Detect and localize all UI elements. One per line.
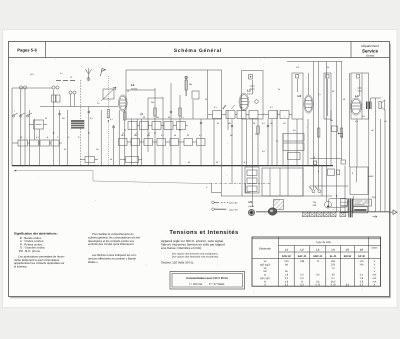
coil L-ant box (103, 89, 114, 99)
svg-text:25k: 25k (156, 116, 159, 119)
svg-text:20k: 20k (189, 83, 192, 86)
svg-text:Service: Service (362, 49, 379, 54)
socket pin p1 (113, 126, 115, 128)
output choke box (350, 167, 368, 195)
mains filter box upper (341, 199, 349, 206)
svg-text:50: 50 (313, 156, 315, 159)
svg-text:1M: 1M (283, 122, 286, 125)
svg-text:0,1: 0,1 (60, 72, 63, 75)
svg-text:Ces abréviations permettent de: Ces abréviations permettent de recon- (18, 254, 65, 258)
switch arrows k2 (232, 105, 235, 109)
svg-text:25: 25 (187, 134, 189, 137)
wire v17 (131, 119, 133, 166)
wire v25 (185, 76, 187, 96)
transformer lower box (353, 207, 368, 213)
coil form small a (52, 95, 56, 102)
AVC line (221, 195, 332, 197)
table outer border (252, 237, 381, 286)
tube V2 grid bars (241, 99, 248, 105)
wire v6 (38, 129, 40, 166)
wire v7 (53, 90, 55, 166)
resistor R20 (328, 169, 335, 176)
wire v1 (11, 88, 13, 166)
tube V5 highlight (270, 210, 273, 212)
wire v20 (147, 98, 149, 152)
svg-text:EM34: EM34 (249, 205, 255, 208)
switch arrows k1 (223, 105, 227, 109)
resistor row2 b (131, 139, 140, 146)
wave switch S1 (13, 113, 32, 116)
switch arrow marks mid (121, 132, 150, 136)
switch contact c1 (12, 115, 14, 117)
resistor R5 (51, 140, 59, 146)
coil arrow (101, 87, 116, 101)
svg-text:Pages 5-6: Pages 5-6 (17, 48, 37, 53)
heater hook h1 (212, 183, 222, 192)
svg-text:50: 50 (205, 98, 207, 101)
junction dot j2 (124, 129, 125, 130)
wire v46 (321, 166, 323, 196)
wire v3 (24, 90, 26, 166)
junction dot j7 (53, 132, 54, 133)
trimmer CA2 (23, 86, 26, 89)
wire v55 (361, 73, 363, 119)
svg-text:PH : B.O. phono.: PH : B.O. phono. (19, 249, 41, 253)
svg-text:Signification des abréviations: Signification des abréviations : (14, 232, 58, 236)
svg-text:50: 50 (20, 136, 22, 139)
svg-text:EL 41: EL 41 (330, 255, 337, 258)
header divider right (350, 42, 352, 58)
svg-text:développés et les contacts: développés et les contacts portés aux (88, 239, 135, 243)
mains selector contact2 (318, 190, 321, 193)
svg-text:2M: 2M (230, 134, 233, 137)
svg-text:0,1: 0,1 (244, 161, 247, 164)
speaker HP cone (381, 100, 385, 111)
legend item2 circle (212, 208, 215, 211)
svg-text:L5: L5 (249, 200, 253, 204)
wire v37 (271, 119, 273, 166)
svg-text:Unités: Unités (371, 247, 378, 250)
secteur plate dashes (355, 201, 370, 205)
svg-text:EAF 41: EAF 41 (298, 255, 307, 258)
dial lamp crosses (303, 212, 346, 216)
socket pin p2 (141, 113, 143, 115)
wire v15 (118, 110, 120, 166)
IF can L4 (351, 73, 369, 119)
wire v56 (368, 109, 370, 212)
capacitor C11 (314, 161, 317, 165)
svg-text:L3: L3 (298, 94, 302, 98)
output transformer T2 (367, 102, 372, 110)
svg-text:étalée ».: étalée ». (88, 260, 99, 264)
svg-text:50: 50 (135, 134, 137, 137)
tube V7 grids (306, 101, 312, 108)
wire v19 (141, 119, 143, 166)
wire v47 (326, 62, 328, 202)
wire v51 (344, 166, 346, 212)
mains selector contact1 (312, 190, 315, 193)
L4 can internal marks (358, 79, 363, 96)
wire v32 (241, 119, 243, 196)
junction dot j1 (108, 120, 109, 121)
tube V7 stem (308, 73, 310, 95)
svg-text:schéma général, les commutateu: schéma général, les commutateurs ont été (88, 235, 140, 239)
fuse dot (327, 206, 329, 208)
heater line arrowhead (14, 170, 17, 172)
top HT bus (287, 61, 342, 63)
svg-text:0,1: 0,1 (181, 116, 184, 119)
antenna input wire (12, 87, 52, 89)
wire v39 (282, 133, 284, 166)
resistor row2 c (144, 139, 153, 146)
wire v49 (336, 62, 338, 212)
tube V3 outer envelope (351, 98, 362, 115)
wire v9 (66, 110, 68, 166)
L3 trimmer square (249, 75, 253, 80)
dial lamp box6 (340, 212, 346, 216)
legend item1 line (214, 201, 228, 203)
osc coupling box (192, 91, 199, 99)
legend item1 circle (212, 201, 215, 204)
header band rule (9, 57, 390, 59)
svg-text:0,1: 0,1 (161, 134, 164, 137)
svg-text:Type du tube: Type du tube (316, 241, 332, 244)
speaker feed wire (371, 98, 381, 102)
resistor R8 (237, 111, 246, 119)
coil pack stripes (71, 122, 84, 126)
svg-text:L2: L2 (127, 90, 129, 93)
wire v57 (375, 98, 377, 212)
svg-text:nexions effectuées en position: nexions effectuées en position « Bande (88, 256, 136, 260)
det resistor d1 (247, 170, 257, 176)
wire v12 (100, 110, 102, 166)
resistor R11 (280, 111, 289, 119)
scan specks (132, 81, 135, 84)
junction dot j11 (338, 133, 339, 134)
svg-text:2M: 2M (62, 117, 65, 120)
table header rule2 (279, 251, 369, 253)
wire v58 (380, 119, 382, 212)
trimmer CA1 (19, 86, 22, 89)
col divider 2 (293, 246, 295, 287)
svg-text:50: 50 (168, 116, 170, 119)
connector leads padding row (137, 125, 188, 127)
svg-text:2x300: 2x300 (368, 175, 373, 178)
wire h-seg (310, 158, 341, 160)
svg-text:liaison PO: liaison PO (229, 208, 238, 211)
svg-text:naître facilement à quel c: naître facilement à quel commutateur (14, 258, 59, 262)
consumption box outer (170, 272, 245, 290)
svg-text:L3: L3 (247, 89, 251, 93)
trimmer CA6 (73, 91, 76, 94)
svg-text:EAF42: EAF42 (247, 92, 253, 95)
svg-text:25: 25 (327, 66, 329, 69)
svg-text:50: 50 (143, 116, 145, 119)
svg-text:0,1: 0,1 (262, 122, 265, 125)
svg-text:Département: Département (361, 44, 379, 48)
L3 trimmer dot (250, 76, 251, 77)
svg-text:2k: 2k (278, 88, 280, 91)
svg-text:à la masse; intensités en mA).: à la masse; intensités en mA). (161, 246, 202, 250)
svg-text:TM: TM (362, 115, 365, 118)
svg-text:I = 350 mA. P = 37 Watt: I = 350 mA. P = 37 Watts. (189, 283, 225, 286)
svg-text:25: 25 (45, 117, 47, 120)
page frame (9, 42, 390, 297)
wire v26 (192, 100, 194, 119)
connector leads R1 (29, 124, 47, 126)
svg-text:700: 700 (359, 263, 364, 266)
svg-text:8: 8 (318, 170, 319, 173)
ground bus (12, 165, 333, 167)
resistor row2 g (197, 139, 206, 146)
resistor R24 vertical (340, 128, 342, 137)
dial lamp box2 (310, 212, 316, 216)
trimmer CA5 (69, 91, 72, 94)
frame shadow bottom (10, 297, 391, 299)
svg-text:Central: Central (366, 54, 375, 57)
trimmer CA3 (52, 86, 55, 89)
trimmer stems (21, 89, 75, 106)
wire v2 (20, 90, 22, 166)
can top terminal t4 (357, 75, 360, 79)
can top terminal t1 (296, 75, 299, 79)
col divider 6 (353, 246, 355, 287)
rectifier tube V6 circle (248, 209, 254, 215)
svg-text:appartiennent les contacts rep: appartiennent les contacts repérables su… (14, 261, 65, 265)
wire v41 (296, 119, 298, 166)
svg-text:1M: 1M (96, 148, 99, 151)
socket pin p6 (267, 125, 269, 127)
heater hook h2 (246, 183, 251, 192)
transformer lower bar (354, 209, 366, 211)
svg-text:25k: 25k (151, 101, 154, 104)
wire v14 (113, 125, 115, 166)
svg-text:endroits des circuits qu'ils i: endroits des circuits qu'ils intéressent… (88, 242, 134, 246)
svg-text:2M: 2M (240, 106, 243, 109)
padding caps row1c (152, 122, 161, 130)
svg-text:Secteur 110 Volts 50 Hz.: Secteur 110 Volts 50 Hz. (161, 261, 194, 265)
svg-text:25: 25 (64, 148, 66, 151)
wire v54 (356, 119, 358, 167)
svg-text:198: 198 (300, 260, 305, 263)
wire v27 (200, 119, 202, 166)
dial lamp box3 (317, 212, 323, 216)
coil form small b (56, 95, 60, 102)
svg-text:0,1: 0,1 (36, 136, 39, 139)
tube V1 ECH42 (119, 96, 126, 110)
wire v34 (252, 119, 254, 207)
AF box internal wires (270, 168, 280, 196)
wire v42 (302, 119, 304, 196)
junction dot j5 (221, 165, 222, 166)
tube V2 outer envelope (239, 93, 249, 110)
wire h-seg2 (310, 185, 348, 187)
AVC resistor stack2 (283, 143, 304, 151)
wire v29 (221, 119, 223, 196)
fuse circle (325, 201, 332, 208)
col divider units (367, 237, 369, 286)
mains filter divider (341, 201, 349, 203)
IF can second (292, 73, 303, 119)
svg-text:2k: 2k (217, 122, 219, 125)
wire v24 (179, 95, 181, 166)
resistor R21 (337, 170, 340, 175)
wire v40 (287, 119, 289, 196)
junction dot j8 (276, 140, 277, 141)
speaker HP frame (379, 102, 381, 109)
svg-text:Pour faciliter la compréhen: Pour faciliter la compréhension du (92, 232, 134, 236)
wire v53 (352, 196, 354, 212)
wire v50 (340, 62, 342, 161)
wire v28 (213, 119, 215, 166)
svg-text:0,1: 0,1 (270, 106, 273, 109)
box divider (207, 70, 209, 119)
svg-text:0,1: 0,1 (110, 118, 113, 121)
connector leads row left A (12, 142, 62, 144)
wire v5 (34, 119, 36, 140)
svg-text:1M: 1M (384, 120, 387, 123)
magic eye coil hatched (274, 200, 284, 210)
col divider electrode (278, 237, 280, 286)
wire v45 (318, 62, 320, 190)
can2 internal line (297, 79, 299, 92)
wire v38 (276, 110, 278, 166)
wire v59 (384, 110, 386, 212)
padding caps row1b (140, 122, 149, 130)
resistor row2 d (157, 139, 166, 146)
tube V3 grid bars (352, 103, 360, 109)
resistor R1 (34, 120, 44, 129)
svg-text:GZ 40: GZ 40 (358, 255, 366, 258)
wire v35 (257, 119, 259, 166)
wire v8 (59, 110, 61, 166)
svg-text:0,75: 0,75 (315, 284, 320, 287)
resistor row2 f (184, 139, 193, 146)
resistor R26 vertical (124, 112, 126, 120)
resistor R3 (30, 140, 39, 146)
svg-text:Les flèches noires indiquen: Les flèches noires indiquent les con- (92, 253, 137, 257)
svg-text:le schéma.: le schéma. (14, 265, 28, 269)
rectifier tube V6 anode (250, 211, 253, 214)
wire v36 (267, 119, 269, 166)
svg-text:25k: 25k (330, 119, 333, 122)
wire v22 (162, 97, 164, 166)
coil pack hatched (71, 120, 84, 129)
resistor R9 (249, 111, 258, 119)
capacitor C2 (126, 157, 139, 163)
osc resistor vertical (185, 76, 188, 96)
wire v16 (124, 110, 126, 166)
svg-text:ECH 42: ECH 42 (282, 255, 291, 258)
L3 can internal line (250, 80, 255, 94)
svg-text:8: 8 (352, 172, 353, 175)
can top terminal t3 (326, 75, 329, 79)
power transformer T1 windings (349, 198, 352, 217)
wire v18 (136, 119, 138, 166)
tube V5 EM34 body (268, 208, 277, 215)
svg-text:50: 50 (188, 161, 190, 164)
tube V7 outer envelope (304, 95, 313, 113)
resistor R28 vertical (179, 108, 181, 116)
dial lamp box1 (303, 212, 309, 216)
lamp housing (329, 198, 348, 207)
AVC resistor stack3 (288, 153, 301, 160)
wire v10 dashed (80, 80, 82, 166)
det resistor d2 (247, 178, 257, 184)
resistor R25 vertical (107, 110, 109, 118)
col divider 5 (339, 246, 341, 287)
svg-text:L4: L4 (355, 94, 359, 98)
resistor R2 (18, 140, 28, 146)
svg-text:0,1: 0,1 (318, 93, 321, 96)
svg-text:0,5: 0,5 (262, 150, 265, 153)
antenna terminal (87, 78, 90, 81)
padder dashes (56, 80, 75, 82)
grid wire (40, 106, 118, 108)
dial lamp box5 (331, 212, 337, 216)
flag P marker (101, 69, 106, 77)
tube V7 EBC41 (305, 96, 312, 112)
svg-text:2k: 2k (148, 134, 150, 137)
svg-text:50: 50 (332, 90, 334, 93)
padding caps row1d (164, 122, 173, 130)
junction dot j10 (336, 195, 337, 196)
padding caps row1a (128, 122, 137, 130)
mains filter box lower (341, 207, 349, 213)
svg-text:0,1: 0,1 (199, 134, 202, 137)
consumption box inner (172, 274, 243, 288)
wire v52 (348, 73, 350, 167)
choke box internal wire (356, 167, 358, 182)
resistor R23 vertical (318, 128, 320, 137)
bottom supply bus (256, 211, 390, 213)
osc internal wire h1 (126, 90, 163, 98)
svg-text:Schéma Général: Schéma Général (174, 48, 222, 54)
svg-text:Tensions et Intensités: Tensions et Intensités (169, 229, 238, 236)
connector leads row left B (80, 159, 142, 161)
tube V2 EAF42 (240, 95, 248, 110)
svg-text:50: 50 (174, 134, 176, 137)
coil can small (324, 73, 331, 119)
secteur plate box (353, 199, 372, 206)
wire v13 dotted (107, 76, 109, 166)
wire v48 (330, 110, 332, 166)
connector leads row mid (208, 114, 292, 116)
padding caps row1e (177, 122, 186, 130)
selector arms (309, 186, 318, 190)
junction dot j9 (313, 165, 314, 166)
socket pin p5 (231, 125, 233, 127)
svg-text:Consommation avec 110 V 50 Hz: Consommation avec 110 V 50 Hz (186, 277, 228, 280)
svg-text:0,5: 0,5 (90, 117, 93, 120)
capacitor C10 (341, 160, 346, 164)
resistor R27 vertical (154, 108, 156, 116)
earth arrow mark (373, 216, 378, 218)
wire v33 (246, 119, 248, 167)
svg-text:1M: 1M (270, 122, 273, 125)
resistor row2 a (119, 139, 128, 146)
chassis dash-dot line (210, 182, 270, 184)
svg-text:EBC 41: EBC 41 (313, 255, 322, 258)
socket pin p7 (88, 111, 90, 113)
mains plug (390, 210, 397, 214)
can4 internal line (327, 79, 329, 116)
svg-text:25: 25 (216, 161, 218, 164)
oscillator box L1 (126, 70, 222, 119)
svg-text:0,5: 0,5 (122, 134, 125, 137)
tube V1 outer envelope (118, 95, 127, 111)
wire v21 (154, 88, 156, 166)
